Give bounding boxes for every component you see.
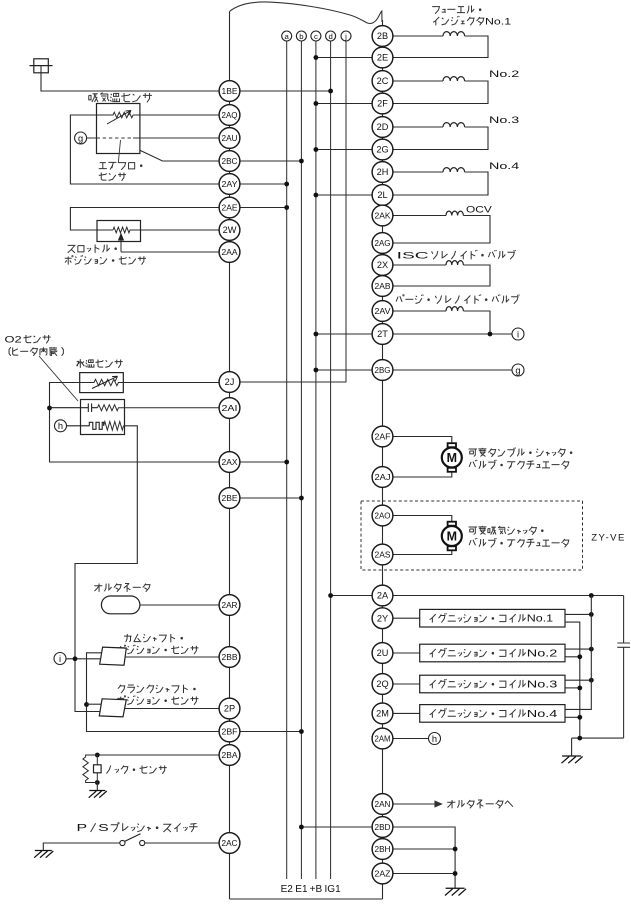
svg-text:OCV: OCV bbox=[466, 205, 493, 216]
connector pin 2AS bbox=[372, 544, 393, 565]
knock piezo element bbox=[94, 755, 102, 783]
node b bbox=[296, 31, 306, 41]
water temp sensor box bbox=[80, 373, 124, 393]
ground knock sensor bbox=[89, 791, 107, 798]
svg-text:2Q: 2Q bbox=[376, 679, 388, 689]
junction knock top bbox=[95, 753, 100, 758]
connector pin 2AZ bbox=[372, 863, 393, 884]
wire heater return bbox=[75, 426, 137, 712]
airflow sensor box bbox=[97, 104, 140, 154]
wire injector No.1 feed bbox=[393, 35, 443, 37]
wire 2AZ to ground bus bbox=[393, 873, 455, 875]
wire 2AX to a bbox=[240, 461, 287, 463]
svg-text:2BF: 2BF bbox=[222, 727, 238, 737]
crankshaft sensor symbol bbox=[99, 699, 126, 717]
svg-text:P: P bbox=[77, 823, 88, 834]
svg-text:c: c bbox=[314, 32, 318, 41]
airflow leader line bbox=[118, 140, 120, 163]
connector pin 2U bbox=[372, 643, 393, 664]
wire g to 2AU dashed bbox=[87, 137, 220, 139]
junction coil1/+B bus bbox=[589, 612, 594, 617]
wire injector No.3 feed bbox=[393, 126, 443, 128]
wire motor2 to 2AS bbox=[393, 550, 452, 555]
wire cam top to 2BF net bbox=[87, 653, 220, 732]
O2 capacitor bbox=[50, 403, 98, 412]
wire potentiometer to 2W bbox=[113, 227, 219, 233]
OCV coil bbox=[446, 211, 463, 215]
motor M2 intake shutter actuator bbox=[442, 522, 462, 551]
label alternator bbox=[94, 583, 150, 591]
wire switch to 2AC bbox=[145, 842, 219, 844]
ignition coil No.2 box bbox=[420, 644, 565, 662]
wire O2 cell to 2AI bbox=[98, 405, 220, 411]
junction 2BH gnd bbox=[453, 847, 458, 852]
node h bbox=[55, 420, 67, 432]
ignition coil No.1 label bbox=[430, 613, 553, 625]
wire 2BD to b bbox=[301, 826, 372, 828]
ZY-VE dashed box bbox=[361, 501, 583, 570]
junction a/2AX bbox=[284, 460, 289, 465]
connector pin 2AJ bbox=[372, 467, 393, 488]
wire cam sensor to 2BB bbox=[125, 656, 220, 658]
wire sensor ground net bbox=[50, 383, 220, 463]
svg-text:2AZ: 2AZ bbox=[375, 869, 392, 879]
svg-text:2X: 2X bbox=[377, 260, 388, 270]
svg-text:d: d bbox=[328, 32, 332, 41]
wire injector No.4 return bbox=[393, 172, 488, 195]
capacitor C1 bbox=[617, 596, 630, 739]
connector pin 2W bbox=[219, 220, 240, 241]
svg-text:No.4: No.4 bbox=[527, 709, 558, 720]
label water temp sensor bbox=[76, 359, 122, 368]
connector pin 2Y bbox=[372, 608, 393, 629]
connector pin 2BG bbox=[372, 360, 393, 381]
thermistor arrow bbox=[107, 111, 131, 125]
junction b/2BF bbox=[299, 729, 304, 734]
ground P/S switch bbox=[34, 851, 53, 858]
svg-text:E1: E1 bbox=[295, 884, 308, 895]
wire wiper to 2AA bbox=[121, 251, 219, 253]
wire heater resistor bbox=[104, 422, 124, 431]
svg-text:2E: 2E bbox=[377, 53, 388, 63]
wire 2T to node i bbox=[393, 333, 513, 335]
ground ignition coils bbox=[562, 756, 583, 763]
junction c/2E bbox=[314, 55, 319, 60]
ignition coil No.4 label bbox=[430, 708, 559, 720]
wire motor1 to 2AJ bbox=[393, 472, 452, 478]
label throttle sensor line1 bbox=[68, 244, 117, 252]
label throttle sensor line2 bbox=[65, 255, 146, 264]
throttle sensor box bbox=[97, 221, 141, 242]
svg-text:2BH: 2BH bbox=[375, 844, 391, 854]
wire 2AE loop to pot bbox=[70, 208, 219, 231]
svg-text:2BE: 2BE bbox=[222, 493, 238, 503]
wire 2BC to b bbox=[240, 160, 302, 162]
svg-text:2AE: 2AE bbox=[222, 203, 238, 213]
svg-text:IG1: IG1 bbox=[325, 884, 342, 895]
node d bbox=[326, 31, 336, 41]
wire coil ground rail bbox=[572, 737, 624, 739]
label intake air temp sensor bbox=[89, 93, 152, 103]
svg-text:2U: 2U bbox=[377, 648, 389, 658]
wire injector No.3 return bbox=[393, 127, 488, 150]
connector pin 2AN bbox=[372, 794, 393, 815]
label crankshaft sensor line2 bbox=[117, 696, 198, 705]
net E1 wire (b) bbox=[300, 41, 302, 879]
wire 2BG to c bbox=[316, 369, 372, 371]
svg-text:No.2: No.2 bbox=[527, 649, 558, 660]
injector No.1 coil bbox=[443, 32, 465, 36]
connector pin 2M bbox=[372, 703, 393, 724]
junction b/2BD bbox=[299, 825, 304, 830]
ground bottom right bbox=[445, 888, 466, 895]
svg-text:No.1: No.1 bbox=[527, 614, 553, 625]
wire i to cam bottom bbox=[66, 658, 101, 660]
svg-text:2T: 2T bbox=[377, 329, 388, 339]
wire injector No.4 feed bbox=[393, 171, 443, 173]
svg-text:2BB: 2BB bbox=[222, 652, 238, 662]
connector pin 2P bbox=[219, 698, 240, 719]
alternator symbol bbox=[101, 596, 139, 614]
connector pin 2BA bbox=[219, 745, 240, 766]
junction purge/2T bbox=[488, 332, 493, 337]
label intake shutter line1 bbox=[469, 526, 544, 535]
svg-text:2AO: 2AO bbox=[375, 511, 391, 521]
svg-text:2AS: 2AS bbox=[375, 550, 391, 560]
wire coil4 bottom bbox=[565, 716, 580, 718]
wire OCV return bbox=[393, 216, 490, 244]
label P/S pressure switch bbox=[77, 823, 198, 835]
svg-text:2BA: 2BA bbox=[222, 750, 238, 760]
net +B wire (c) bbox=[315, 41, 317, 879]
svg-text:2AK: 2AK bbox=[375, 211, 391, 221]
P/S switch symbol bbox=[120, 834, 145, 846]
junction coil ground bbox=[577, 736, 582, 741]
svg-text:No.3: No.3 bbox=[489, 115, 519, 126]
ignition coil No.2 label bbox=[430, 648, 558, 660]
connector pin 2AY bbox=[219, 174, 240, 195]
svg-text:2B: 2B bbox=[377, 31, 388, 41]
purge solenoid coil bbox=[446, 307, 463, 311]
label injector No.2 bbox=[489, 69, 519, 80]
wire coil3 bottom bbox=[565, 687, 580, 689]
svg-text:i: i bbox=[59, 654, 61, 664]
connector pin 2AI bbox=[219, 398, 240, 419]
junction c/2F bbox=[314, 101, 319, 106]
svg-text:2C: 2C bbox=[377, 76, 389, 86]
ECU bottom wire bbox=[230, 898, 383, 900]
label camshaft sensor line1 bbox=[124, 634, 183, 642]
wire switch to ground bbox=[43, 843, 120, 851]
junction sensor gnd/O2 bbox=[47, 406, 52, 411]
connector pin 2AU bbox=[219, 128, 240, 149]
connector pin 2BE bbox=[219, 488, 240, 509]
injector No.4 coil bbox=[443, 168, 465, 172]
node c bbox=[311, 31, 321, 41]
wire 2G to c bbox=[316, 149, 372, 151]
junction coil2/+B bus bbox=[589, 647, 594, 652]
node j bbox=[341, 31, 351, 41]
connector pin 2AX bbox=[219, 452, 240, 473]
wire 2No.2 to ignition coil No.2 bbox=[393, 652, 420, 654]
wire 2A to d bbox=[331, 595, 373, 597]
node a bbox=[282, 31, 292, 41]
wire 2BF to b bbox=[240, 731, 302, 733]
svg-text:2AX: 2AX bbox=[222, 457, 238, 467]
wire 2BD to ground bus bbox=[393, 827, 455, 888]
label crankshaft sensor line1 bbox=[118, 685, 195, 693]
connector pin 2A bbox=[372, 585, 393, 606]
connector pin 2F bbox=[372, 93, 393, 114]
svg-text:j: j bbox=[344, 32, 347, 41]
ECU top harness curve bbox=[230, 2, 383, 23]
wire coil3 top bbox=[565, 679, 591, 681]
svg-text:2BD: 2BD bbox=[375, 822, 391, 832]
connector pin 2BF bbox=[219, 721, 240, 742]
ignition coil No.3 label bbox=[430, 679, 558, 691]
connector pin 2E bbox=[372, 47, 393, 68]
connector pin 2BH bbox=[372, 839, 393, 860]
connector pin 2AQ bbox=[219, 105, 240, 126]
label fuel injector No.1 line1 bbox=[432, 5, 481, 13]
label fuel injector No.1 line2 bbox=[433, 16, 511, 27]
connector pin 2L bbox=[372, 185, 393, 206]
svg-text:2P: 2P bbox=[224, 704, 235, 714]
junction coil3/+B bus bbox=[589, 678, 594, 683]
svg-text:2AQ: 2AQ bbox=[222, 110, 238, 120]
wire 2AO to motor2 bbox=[393, 516, 452, 523]
connector pin 2BD bbox=[372, 817, 393, 838]
svg-text:2L: 2L bbox=[377, 190, 387, 200]
connector pin 2Q bbox=[372, 674, 393, 695]
label to alternator bbox=[447, 800, 513, 808]
wire airflow to 2BC bbox=[140, 150, 219, 161]
svg-text:g: g bbox=[515, 365, 520, 375]
wire injector No.2 return bbox=[393, 81, 488, 104]
connector pin 2H bbox=[372, 162, 393, 183]
wire coil2 bottom bbox=[565, 656, 580, 658]
junction 2AZ gnd bbox=[453, 871, 458, 876]
label O2 sensor line2 bbox=[9, 347, 63, 356]
camshaft sensor symbol bbox=[100, 647, 127, 665]
O2 heater element bbox=[67, 422, 104, 429]
wire thermistor to 2AQ bbox=[97, 112, 134, 118]
junction c/2L bbox=[314, 193, 319, 198]
wire coil2 top bbox=[565, 648, 591, 650]
label injector No.3 bbox=[489, 115, 519, 126]
svg-text:2AV: 2AV bbox=[375, 306, 391, 316]
wire alternator to 2AR bbox=[141, 604, 220, 606]
connector pin 2AE bbox=[219, 197, 240, 218]
connector pin 2AM bbox=[372, 728, 393, 749]
svg-text:O2: O2 bbox=[5, 335, 22, 346]
connector pin 2AK bbox=[372, 205, 393, 226]
svg-text:2Y: 2Y bbox=[377, 613, 388, 623]
junction c/2G bbox=[314, 147, 319, 152]
O2 sensor box bbox=[81, 400, 125, 435]
svg-text:2AC: 2AC bbox=[222, 838, 238, 848]
svg-text:M: M bbox=[447, 451, 457, 465]
junction i net bbox=[73, 656, 78, 661]
knock resistor bbox=[83, 755, 97, 783]
svg-text:No.1: No.1 bbox=[485, 17, 511, 28]
wire battery to 1BE bbox=[41, 66, 219, 91]
ISC solenoid coil bbox=[446, 261, 463, 265]
svg-text:2AU: 2AU bbox=[222, 133, 238, 143]
wire 2No.4 to ignition coil No.4 bbox=[393, 712, 420, 714]
junction coil3 gnd bbox=[577, 686, 582, 691]
junction d/1BE bbox=[328, 89, 333, 94]
node i right bbox=[512, 328, 524, 340]
ECU left bus wire bbox=[229, 12, 231, 900]
node i bbox=[54, 653, 66, 665]
svg-text:2J: 2J bbox=[225, 377, 235, 387]
wire 2L to c bbox=[316, 194, 372, 196]
connector pin 2AF bbox=[372, 426, 393, 447]
label tumble actuator line1 bbox=[469, 448, 572, 457]
wire 2AF to motor1 bbox=[393, 437, 452, 444]
node g bbox=[75, 132, 87, 144]
svg-text:g: g bbox=[78, 133, 83, 143]
label tumble actuator line2 bbox=[469, 460, 569, 469]
label ISC solenoid valve bbox=[397, 250, 516, 261]
junction knock bottom bbox=[95, 780, 100, 785]
ignition coil No.3 box bbox=[420, 675, 565, 693]
wire coil ground stem bbox=[571, 738, 573, 756]
connector pin 2BB bbox=[219, 647, 240, 668]
svg-text:M: M bbox=[447, 530, 457, 544]
wire 2AY to a bbox=[240, 183, 287, 185]
svg-text:2A: 2A bbox=[377, 591, 389, 601]
connector pin 2T bbox=[372, 324, 393, 345]
junction 2A bus bbox=[589, 593, 594, 598]
svg-text:h: h bbox=[432, 734, 437, 744]
injector No.2 coil bbox=[443, 77, 465, 81]
pot wiper arrow bbox=[119, 234, 124, 252]
label airflow sensor line2 bbox=[99, 172, 126, 180]
svg-text:ISC: ISC bbox=[397, 251, 429, 262]
svg-text:No.4: No.4 bbox=[489, 161, 520, 172]
connector pin 2AC bbox=[219, 833, 240, 854]
wire 1BE to d bbox=[240, 90, 331, 92]
net IG1 wire (d) bbox=[330, 41, 332, 879]
label camshaft sensor line2 bbox=[117, 645, 198, 654]
connector pin 2BC bbox=[219, 151, 240, 172]
wire injector No.2 feed bbox=[393, 80, 443, 82]
wire 2AQ lead bbox=[133, 114, 219, 116]
wire ISC return bbox=[393, 265, 490, 286]
svg-text:b: b bbox=[299, 32, 303, 41]
O2 leader line bbox=[39, 356, 78, 401]
connector pin 2J bbox=[219, 372, 240, 393]
net j wire to 2J bbox=[240, 41, 346, 382]
svg-text:h: h bbox=[58, 421, 63, 431]
junction a/2AY bbox=[284, 182, 289, 187]
connector pin 2X bbox=[372, 255, 393, 276]
wire coil4 top to bus bbox=[565, 596, 591, 710]
connector pin 2C bbox=[372, 71, 393, 92]
label intake shutter line2 bbox=[469, 538, 569, 547]
svg-text:2AM: 2AM bbox=[375, 734, 391, 744]
node g right bbox=[512, 364, 524, 376]
wire purge return bbox=[463, 311, 490, 334]
connector pin 2B bbox=[372, 26, 393, 47]
svg-text:1BE: 1BE bbox=[222, 86, 238, 96]
label knock sensor bbox=[107, 765, 167, 773]
wire ISC feed bbox=[393, 264, 446, 266]
svg-text:2AR: 2AR bbox=[222, 600, 238, 610]
wire 2BH to ground bus bbox=[393, 848, 455, 850]
wire 2BA to knock bbox=[97, 754, 219, 756]
net E2 wire (a) bbox=[286, 41, 288, 879]
junction coil4 gnd bbox=[577, 715, 582, 720]
svg-text:2BG: 2BG bbox=[375, 365, 391, 375]
wire thermistor loop to 2AY bbox=[70, 115, 219, 184]
svg-text:ZY-VE: ZY-VE bbox=[591, 533, 626, 544]
knock ground stem bbox=[96, 783, 98, 791]
svg-text:i: i bbox=[517, 329, 519, 339]
wire 2E to c bbox=[316, 57, 372, 59]
wire 2AM to node h bbox=[393, 738, 429, 740]
junction a/2AE bbox=[284, 205, 289, 210]
junction c/2BG bbox=[314, 368, 319, 373]
connector pin 2AB bbox=[372, 276, 393, 297]
junction c/2T bbox=[314, 332, 319, 337]
svg-text:2AA: 2AA bbox=[222, 247, 238, 257]
battery connector symbol bbox=[30, 59, 53, 73]
junction crank top bbox=[84, 702, 89, 707]
connector pin 2D bbox=[372, 117, 393, 138]
svg-text:2AG: 2AG bbox=[375, 238, 391, 248]
svg-text:2AY: 2AY bbox=[222, 179, 238, 189]
svg-text:2G: 2G bbox=[376, 145, 388, 155]
connector pin 1BE bbox=[219, 81, 240, 102]
svg-text:2H: 2H bbox=[377, 167, 389, 177]
label O2 sensor line1 bbox=[5, 335, 51, 346]
svg-text:No.2: No.2 bbox=[489, 69, 519, 80]
arrow to alternator bbox=[432, 801, 442, 807]
wire coil1 top bbox=[565, 613, 591, 615]
wire 2BG to node g bbox=[393, 369, 513, 371]
svg-text:2M: 2M bbox=[376, 709, 389, 719]
node h right bbox=[429, 733, 441, 745]
wire 2BE to b bbox=[240, 497, 302, 499]
label injector No.4 bbox=[489, 161, 520, 172]
water thermistor arrow bbox=[92, 376, 118, 388]
svg-text:2BC: 2BC bbox=[222, 156, 238, 166]
connector pin 2AO bbox=[372, 505, 393, 526]
svg-text:S: S bbox=[98, 823, 109, 834]
connector pin 2G bbox=[372, 139, 393, 160]
wire coil1 bottom bbox=[565, 622, 580, 738]
junction d/2A bbox=[328, 593, 333, 598]
svg-text:+B: +B bbox=[310, 884, 323, 895]
svg-text:2AN: 2AN bbox=[375, 799, 391, 809]
connector pin 2AG bbox=[372, 233, 393, 254]
label purge solenoid valve bbox=[396, 295, 519, 304]
svg-text:2W: 2W bbox=[223, 225, 237, 235]
wire 2T to c bbox=[316, 333, 372, 335]
connector pin 2AV bbox=[372, 301, 393, 322]
svg-text:No.3: No.3 bbox=[527, 680, 558, 691]
ECU right bus wire bbox=[382, 20, 384, 899]
svg-text:2D: 2D bbox=[377, 122, 389, 132]
svg-text:2AB: 2AB bbox=[375, 281, 391, 291]
wire 2F to c bbox=[316, 103, 372, 105]
ignition coil No.4 box bbox=[420, 705, 565, 723]
connector pin 2AA bbox=[219, 242, 240, 263]
label airflow sensor line1 bbox=[99, 162, 142, 169]
